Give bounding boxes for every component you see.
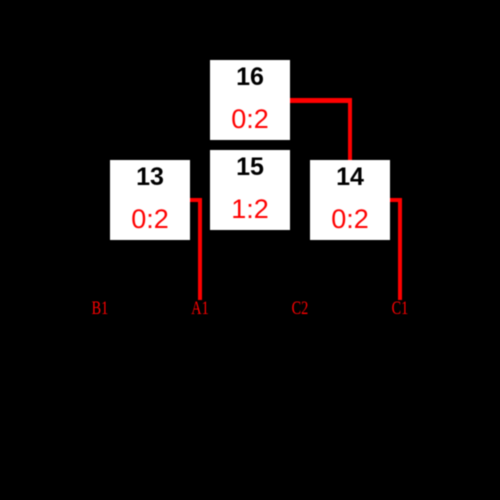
node label C2 [285, 302, 315, 315]
match box 14 [310, 160, 390, 240]
wire 14 down to C1 [398, 198, 402, 300]
node label B1 [85, 302, 115, 315]
match box 16 [210, 60, 290, 140]
wire 14 elbow horizontal [390, 198, 402, 202]
wire 13 elbow horizontal [190, 198, 202, 202]
match box 13 [110, 160, 190, 240]
wire 16 to 14 horizontal [290, 98, 352, 103]
node label C1 [385, 302, 415, 315]
wire 13 down to A1 [198, 198, 202, 300]
wire 16 to 14 vertical [348, 98, 352, 160]
match box 15 [210, 150, 290, 230]
node label A1 [185, 302, 215, 315]
